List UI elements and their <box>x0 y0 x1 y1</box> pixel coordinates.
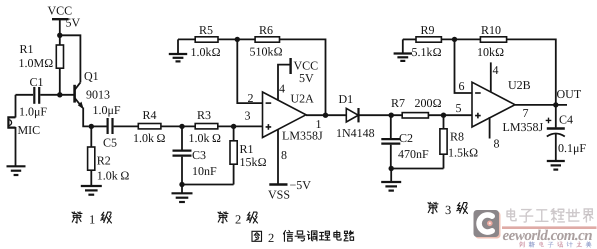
svg-text:4: 4 <box>279 81 285 95</box>
label stage 2 (di 2 ji) <box>218 212 258 227</box>
svg-text:D1: D1 <box>339 92 354 106</box>
svg-text:Q1: Q1 <box>84 69 99 83</box>
capacitor C4 lead upper <box>555 105 557 128</box>
resistor R1b (15k) leads <box>233 126 235 184</box>
svg-text:2: 2 <box>248 91 254 105</box>
svg-text:2: 2 <box>235 212 241 226</box>
svg-text:0.1μF: 0.1μF <box>558 141 586 155</box>
resistor R6 body <box>255 37 279 42</box>
node: VCC/R1/collector junction <box>57 33 62 38</box>
svg-text:−5V: −5V <box>290 178 312 192</box>
diode D1 triangle <box>346 108 358 122</box>
svg-text:9013: 9013 <box>86 88 110 102</box>
op-amp U2A triangle <box>263 92 307 138</box>
transistor Q1 emitter with arrow <box>75 98 83 108</box>
svg-text:R1: R1 <box>20 42 34 56</box>
svg-text:3: 3 <box>245 109 251 123</box>
op-amp U2A minus sign <box>266 102 272 104</box>
svg-text:1.0μF: 1.0μF <box>93 103 121 117</box>
svg-text:1N4148: 1N4148 <box>336 126 375 140</box>
wire U2B output to OUT <box>515 104 567 106</box>
wire MIC to C1 <box>16 94 34 96</box>
resistor R7 body <box>402 113 428 118</box>
transistor Q1 collector <box>75 82 81 90</box>
node: R1/base junction <box>57 92 62 97</box>
wire D1 to R7 <box>359 114 403 116</box>
wire bottom rail stage3 <box>391 168 444 170</box>
svg-text:R5: R5 <box>199 23 213 37</box>
pin 8 stub (U2B) <box>489 117 491 139</box>
node: OUT junction <box>553 102 558 107</box>
node: D1/C2/R7 junction <box>389 113 394 118</box>
svg-text:C3: C3 <box>192 148 206 162</box>
resistor R2 body <box>88 147 95 170</box>
svg-text:LM358J: LM358J <box>503 120 544 134</box>
svg-text:C2: C2 <box>399 131 413 145</box>
node: R5/R6/pin2 junction <box>235 37 240 42</box>
svg-text:R4: R4 <box>143 108 157 122</box>
power VCC (stage 2 pin4) <box>278 58 291 101</box>
power VSS (stage 2 pin8) <box>269 129 287 184</box>
ground (C4) <box>547 161 565 170</box>
wire R4 to R3 <box>161 125 195 127</box>
resistor R8 body <box>440 129 447 154</box>
caption: figure 2 signal conditioning circuit <box>252 230 354 244</box>
wire ground to R5 <box>178 38 195 40</box>
svg-text:U2B: U2B <box>508 78 531 92</box>
ground (C3) <box>172 185 193 203</box>
svg-text:15kΩ: 15kΩ <box>240 155 267 169</box>
microphone MIC lead upper <box>15 95 17 118</box>
resistor R1b (15k) body <box>230 141 237 164</box>
resistor R5 body <box>195 37 218 42</box>
resistor R3 body <box>195 124 218 129</box>
microphone MIC lead lower <box>15 127 17 166</box>
ground (R2) <box>81 186 102 195</box>
capacitor C1 plates <box>34 87 39 104</box>
svg-text:7: 7 <box>523 106 529 120</box>
node: R3/R1b junction <box>231 124 236 129</box>
wire C5 to R4 <box>114 125 139 127</box>
ground (R9 feedback) <box>394 39 412 61</box>
resistor R9 body <box>416 37 441 42</box>
svg-text:R9: R9 <box>421 23 435 37</box>
watermark: small CJK slogan <box>520 242 592 248</box>
svg-text:5.1kΩ: 5.1kΩ <box>412 45 442 59</box>
node: C3/ground junction <box>179 182 184 187</box>
wire R10 to output node <box>507 39 556 105</box>
wire feedback node down to pin2 <box>237 39 262 103</box>
wire R5 to R6 <box>218 38 255 40</box>
wire node to C5 <box>91 125 106 127</box>
op-amp U2A plus sign <box>266 124 272 130</box>
node: R4/R3/C3 junction <box>179 124 184 129</box>
label stage 3 (di 3 ji) <box>428 202 468 217</box>
capacitor C2 plates <box>381 139 400 144</box>
wire emitter down to node <box>83 108 89 127</box>
svg-text:MIC: MIC <box>18 123 41 137</box>
node: output/feedback junction <box>323 113 328 118</box>
svg-text:1.0μF: 1.0μF <box>19 105 47 119</box>
svg-text:R2: R2 <box>97 154 111 168</box>
op-amp U2B triangle <box>472 82 515 127</box>
node: emitter/R2/C5 junction <box>89 124 94 129</box>
label plus (C4) <box>546 118 552 124</box>
wire feedback node down to pin6 <box>455 39 473 93</box>
svg-text:1.0MΩ: 1.0MΩ <box>19 56 54 70</box>
wire R3 to U2A pin3 <box>218 125 263 127</box>
wire R7 to U2B pin5 <box>428 114 472 116</box>
svg-text:U2A: U2A <box>291 92 315 106</box>
capacitor C3 plates <box>173 151 192 156</box>
svg-text:OUT: OUT <box>557 87 582 101</box>
resistor R10 body <box>480 37 506 42</box>
capacitor C3 lead upper <box>181 126 183 149</box>
diode D1 cathode bar <box>357 108 359 122</box>
watermark: big CJK text dianzi gongcheng shijie <box>507 209 593 222</box>
op-amp U2B minus sign <box>475 92 481 94</box>
svg-text:R1: R1 <box>240 142 254 156</box>
resistor R1 (1.0M) body <box>56 45 63 68</box>
capacitor C5 plates <box>108 118 113 134</box>
capacitor C2 lead upper <box>390 115 392 138</box>
svg-text:R7: R7 <box>391 96 405 110</box>
label stage 1 (di 1 ji) <box>72 212 112 227</box>
capacitor C4 curved plate <box>547 134 565 137</box>
capacitor C3 lead lower <box>181 157 183 185</box>
capacitor C2 lead lower <box>390 145 392 169</box>
svg-text:8: 8 <box>281 148 287 162</box>
watermark: eeworld logo icon <box>474 210 501 239</box>
resistor R8 leads <box>443 115 445 168</box>
svg-text:1.5kΩ: 1.5kΩ <box>448 145 478 159</box>
svg-text:10kΩ: 10kΩ <box>477 45 504 59</box>
svg-text:R3: R3 <box>197 108 211 122</box>
power VCC (stage 1) <box>52 19 69 35</box>
wire bottom rail stage2 <box>182 184 234 186</box>
svg-text:R10: R10 <box>481 23 501 37</box>
capacitor C4 lead lower <box>555 134 557 161</box>
ground (MIC) <box>7 166 26 175</box>
node: R9/R10/pin6 junction <box>452 37 457 42</box>
svg-text:8: 8 <box>494 137 500 151</box>
svg-text:R8: R8 <box>450 130 464 144</box>
svg-text:4: 4 <box>493 63 499 77</box>
node: C2/ground junction <box>389 166 394 171</box>
svg-text:1.0k Ω: 1.0k Ω <box>133 131 166 145</box>
svg-text:C4: C4 <box>559 113 573 127</box>
svg-text:5: 5 <box>456 101 462 115</box>
wire R9 to R10 <box>441 38 480 40</box>
svg-text:1.0kΩ: 1.0kΩ <box>191 45 221 59</box>
svg-text:C5: C5 <box>103 135 117 149</box>
svg-text:1: 1 <box>316 117 322 131</box>
capacitor C4 top plate <box>547 127 565 129</box>
resistor R1 (1.0M) leads <box>59 35 61 95</box>
transistor Q1 base bar <box>73 85 76 103</box>
svg-text:10nF: 10nF <box>192 164 217 178</box>
svg-text:VSS: VSS <box>268 187 290 201</box>
ground (R5 feedback) <box>169 39 187 61</box>
watermark: pink underline bar <box>502 226 597 229</box>
microphone MIC symbol <box>8 117 15 127</box>
svg-text:1.0k Ω: 1.0k Ω <box>189 131 222 145</box>
svg-text:470nF: 470nF <box>398 147 429 161</box>
svg-text:1: 1 <box>89 212 95 226</box>
wire ground to R9 <box>403 38 416 40</box>
svg-text:5V: 5V <box>66 16 81 30</box>
svg-text:510kΩ: 510kΩ <box>250 45 283 59</box>
wire R6 to output node <box>280 39 326 115</box>
svg-text:6: 6 <box>459 79 465 93</box>
svg-text:R6: R6 <box>259 23 273 37</box>
resistor R2 leads <box>90 126 92 185</box>
node: R7/R8 junction <box>441 113 446 118</box>
svg-text:1.0k Ω: 1.0k Ω <box>97 169 130 183</box>
op-amp U2B plus sign <box>475 113 481 119</box>
svg-text:C1: C1 <box>30 75 44 89</box>
svg-text:2: 2 <box>268 231 274 245</box>
pin 4 stub (U2B) <box>490 62 492 92</box>
ground (C2) <box>381 169 401 191</box>
resistor R4 body <box>138 124 161 129</box>
wire C1 to Q1 base <box>40 94 73 96</box>
svg-text:5V: 5V <box>299 71 314 85</box>
wire U2A output to D1 <box>306 114 346 116</box>
svg-text:200Ω: 200Ω <box>415 96 442 110</box>
wire VCC node to collector <box>60 35 81 82</box>
svg-text:3: 3 <box>445 203 451 217</box>
